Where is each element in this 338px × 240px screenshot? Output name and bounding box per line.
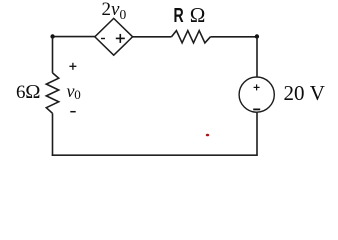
- polarity minus inside source V1: [253, 108, 260, 110]
- wire: right vertical upper (node B to source V1): [256, 37, 258, 78]
- wire: left vertical upper (node A to resistor 6ohm): [52, 37, 54, 73]
- resistor 6 ohm vertical zigzag: [46, 73, 58, 113]
- svg-text:20 V: 20 V: [284, 81, 325, 105]
- resistor R zigzag: [172, 31, 211, 43]
- wire: resistor R to node B: [210, 36, 257, 38]
- svg-text:0: 0: [74, 87, 81, 102]
- dependent voltage source U1 (2v0) diamond: [95, 18, 133, 55]
- wire: top-left horizontal segment (node A to dependent source): [53, 36, 96, 38]
- polarity minus inside diamond: [101, 38, 105, 40]
- svg-text:R: R: [174, 5, 185, 27]
- svg-text:Ω: Ω: [25, 81, 40, 103]
- polarity minus for v0 (bottom, left branch): [70, 111, 75, 113]
- polarity plus for v0 (top, left branch): [69, 63, 76, 70]
- wire: diamond to resistor R: [133, 36, 172, 38]
- node A junction dot (top-left): [50, 34, 54, 38]
- wire: right vertical lower (source V1 to bottom rail): [256, 112, 258, 155]
- independent voltage source V1 circle (20 V): [239, 77, 274, 112]
- red dot marker: [206, 134, 209, 137]
- svg-text:2v0: 2v0: [102, 0, 127, 22]
- polarity plus inside source V1: [254, 84, 260, 90]
- polarity plus inside diamond: [116, 34, 125, 43]
- wire: left vertical lower (bottom rail to resistor 6ohm): [52, 113, 54, 156]
- svg-text:Ω: Ω: [190, 3, 206, 27]
- wire: bottom horizontal rail: [52, 154, 258, 156]
- node B junction dot (top-right): [255, 34, 259, 38]
- svg-text:6: 6: [16, 82, 26, 103]
